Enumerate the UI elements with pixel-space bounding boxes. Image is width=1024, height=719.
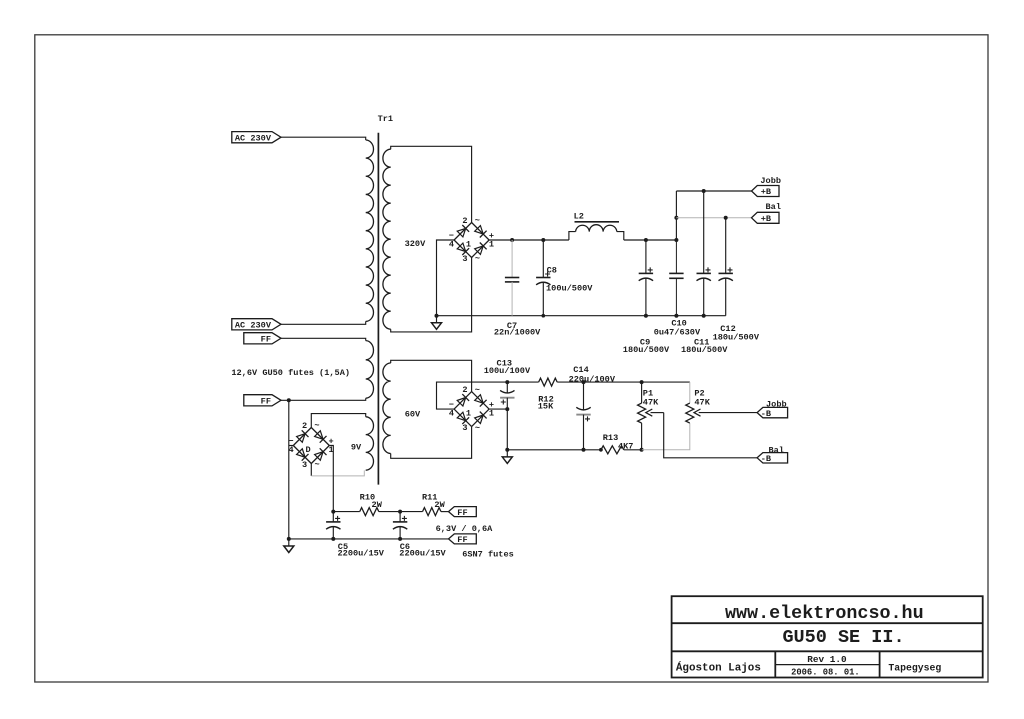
svg-text:180u/500V: 180u/500V <box>623 345 670 355</box>
svg-text:9V: 9V <box>351 443 362 453</box>
svg-text:4: 4 <box>449 409 454 419</box>
potentiometer P2 <box>686 403 757 423</box>
node FF (6SN7 heater -) <box>449 534 477 545</box>
label C8 <box>547 266 557 276</box>
wire Bal +B line <box>676 217 751 219</box>
svg-text:22n/1000V: 22n/1000V <box>494 328 541 338</box>
wire bridge D1 plus to L2 <box>489 239 569 241</box>
wire P1 wiper to Bal -B <box>664 413 757 458</box>
Tr1 12.6V GU50 heater winding <box>366 341 374 399</box>
inductor L2 <box>569 222 624 240</box>
junction C9 bottom <box>644 314 648 318</box>
junction C12 top <box>724 216 728 220</box>
transformer Tr1 core <box>377 133 379 485</box>
transformer Tr1 label <box>378 114 393 124</box>
wire 9V top to bridge D <box>311 414 365 428</box>
junction C6 bottom <box>398 537 402 541</box>
label 9V <box>351 443 362 453</box>
svg-text:FF: FF <box>457 508 467 518</box>
capacitor C7 <box>505 240 519 316</box>
junction riser at Bal line <box>674 216 678 220</box>
resistor R13 <box>601 446 642 454</box>
svg-text:3: 3 <box>462 254 467 264</box>
svg-text:4: 4 <box>449 240 454 250</box>
value C5 2200u/15V <box>338 549 385 559</box>
junction C9 top <box>644 238 648 242</box>
value R10 2W <box>372 500 383 510</box>
bridge rectifier D2 (bias) <box>449 385 494 433</box>
svg-text:~: ~ <box>314 421 319 431</box>
svg-text:Jobb: Jobb <box>760 176 781 186</box>
Tr1 320V secondary winding <box>383 149 391 329</box>
ground (heater) <box>284 537 294 553</box>
value C9 180u/500V <box>623 345 670 355</box>
svg-text:C8: C8 <box>547 266 557 276</box>
node Jobb -B <box>757 400 788 419</box>
junction C13 top <box>505 380 509 384</box>
resistor R12 <box>507 378 583 386</box>
junction C11 top <box>702 189 706 193</box>
wire 9V bottom return <box>311 463 364 476</box>
capacitor C10 <box>669 240 683 316</box>
wire bridge D1 minus to ground <box>437 240 455 316</box>
title date 2006. 08. 01. <box>791 668 860 678</box>
wire 320V top to bridge D1 ac <box>391 146 472 222</box>
label C14 <box>573 365 588 375</box>
svg-text:2W: 2W <box>372 500 383 510</box>
label C5 <box>338 542 348 552</box>
label 320V <box>405 239 426 249</box>
value R13 4K7 <box>618 441 633 451</box>
wire L2 to B+ node <box>624 239 677 241</box>
svg-text:100u/100V: 100u/100V <box>484 366 531 376</box>
wire 60V bottom to bias bridge <box>391 427 472 459</box>
capacitor C11 <box>697 191 711 316</box>
svg-text:~: ~ <box>475 254 480 264</box>
svg-text:47K: 47K <box>694 397 710 407</box>
value P1 47K <box>643 397 659 407</box>
svg-text:6SN7 futes: 6SN7 futes <box>462 550 514 560</box>
label C9 <box>640 338 650 348</box>
ground (bias) <box>502 448 512 464</box>
svg-text:2200u/15V: 2200u/15V <box>338 549 385 559</box>
node Bal -B <box>757 445 788 464</box>
value P2 47K <box>694 397 710 407</box>
svg-text:47K: 47K <box>643 397 659 407</box>
label 6SN7 futes <box>462 550 514 560</box>
value C14 220u/100V <box>569 374 616 384</box>
junction bias plus node <box>505 407 509 411</box>
svg-text:1: 1 <box>489 240 494 250</box>
title block box <box>672 596 983 677</box>
junction R13 left <box>599 448 603 452</box>
svg-text:2: 2 <box>302 421 307 431</box>
value C11 180u/500V <box>681 345 728 355</box>
junction C5 top <box>331 510 335 514</box>
label C7 <box>507 321 517 331</box>
svg-text:12,6V GU50 futes (1,5A): 12,6V GU50 futes (1,5A) <box>231 368 350 378</box>
wire bias bridge minus to C13 node <box>437 382 508 409</box>
node FF (GU50 heater top) <box>244 333 281 345</box>
value R11 2W <box>434 500 445 510</box>
node Bal +B <box>752 202 781 224</box>
svg-text:3: 3 <box>462 423 467 433</box>
junction C5 bottom <box>331 537 335 541</box>
svg-text:FF: FF <box>457 535 467 545</box>
svg-text:Bal: Bal <box>766 202 781 212</box>
Tr1 primary winding (AC 230V) <box>366 140 374 321</box>
value C12 180u/500V <box>713 333 760 343</box>
svg-text:+B: +B <box>761 187 771 197</box>
svg-text:2006. 08. 01.: 2006. 08. 01. <box>791 668 860 678</box>
capacitor C9 <box>639 240 653 316</box>
potentiometer P1 <box>638 382 664 450</box>
label C6 <box>400 542 410 552</box>
svg-text:6,3V / 0,6A: 6,3V / 0,6A <box>436 524 494 534</box>
svg-text:Tapegyseg: Tapegyseg <box>888 663 941 674</box>
capacitor C14 <box>576 382 590 450</box>
svg-text:2W: 2W <box>434 500 445 510</box>
svg-text:Tr1: Tr1 <box>378 114 393 124</box>
svg-text:~: ~ <box>315 460 320 470</box>
svg-text:60V: 60V <box>405 410 421 420</box>
junction B+ rail corner <box>674 238 678 242</box>
svg-text:~: ~ <box>475 216 480 226</box>
value C6 2200u/15V <box>399 549 446 559</box>
wire Jobb +B line <box>676 190 751 192</box>
junction C6 top <box>398 510 402 514</box>
svg-text:~: ~ <box>475 423 480 433</box>
svg-text:R13: R13 <box>603 433 618 443</box>
junction P1 top <box>640 380 644 384</box>
wire primary bottom to AC230V-bottom <box>281 321 366 324</box>
node FF (GU50 heater bottom) <box>244 395 281 407</box>
svg-text:Ágoston Lajos: Ágoston Lajos <box>676 660 761 674</box>
label P2 <box>694 389 704 399</box>
wire bias ground rail <box>507 449 601 451</box>
capacitor C5 <box>326 512 340 539</box>
svg-text:L2: L2 <box>574 212 584 222</box>
label P1 <box>643 389 653 399</box>
label 12,6V GU50 futes <box>231 368 350 378</box>
svg-text:2: 2 <box>462 216 467 226</box>
svg-text:+B: +B <box>761 214 771 224</box>
wire FF node down to heater ground <box>288 400 290 539</box>
svg-text:0u47/630V: 0u47/630V <box>654 327 701 337</box>
svg-text:180u/500V: 180u/500V <box>713 333 760 343</box>
title www.elektroncso.hu <box>725 603 924 624</box>
svg-text:~: ~ <box>475 385 480 395</box>
junction FF bottom node <box>287 398 291 402</box>
title GU50 SE II. <box>782 627 904 648</box>
resistor R10 <box>333 508 400 516</box>
wire P2 top lead <box>689 382 691 403</box>
wire bias top rail to P1 <box>584 381 642 383</box>
wire bias top rail to P2 <box>642 381 690 383</box>
svg-text:1: 1 <box>466 409 471 419</box>
svg-text:15K: 15K <box>538 402 554 412</box>
node AC 230V (top input) <box>232 132 281 144</box>
bridge rectifier D1 (HV) <box>449 216 494 264</box>
capacitor C13 <box>500 382 514 409</box>
ground (HV rail) <box>432 314 442 330</box>
title author Agoston Lajos <box>676 660 761 674</box>
wire bridge D minus stub <box>289 445 294 447</box>
capacitor C12 <box>719 218 733 316</box>
wire ground rail to P2 bottom <box>642 423 690 450</box>
svg-text:3: 3 <box>302 460 307 470</box>
wire bridge D plus to C5 <box>329 446 333 512</box>
wire heater ground <box>289 538 449 540</box>
svg-text:4K7: 4K7 <box>618 441 633 451</box>
svg-text:Rev 1.0: Rev 1.0 <box>807 654 847 665</box>
svg-text:4: 4 <box>289 445 294 455</box>
label C12 <box>720 324 735 334</box>
wire bias plus down <box>506 409 508 450</box>
svg-text:2200u/15V: 2200u/15V <box>399 549 446 559</box>
svg-text:-B: -B <box>761 454 771 464</box>
node AC 230V (bottom input) <box>232 319 281 331</box>
value C10 0u47/630V <box>654 327 701 337</box>
svg-text:-B: -B <box>761 409 771 419</box>
bridge rectifier D (9V) <box>288 421 333 470</box>
wire AC230V-top to primary <box>281 137 366 140</box>
value C7 22n/1000V <box>494 328 541 338</box>
svg-text:www.elektroncso.hu: www.elektroncso.hu <box>725 603 924 624</box>
capacitor C8 <box>536 240 550 316</box>
junction C11 bottom <box>702 314 706 318</box>
svg-text:FF: FF <box>261 397 271 407</box>
label R11 <box>422 492 437 502</box>
label C10 <box>671 319 686 329</box>
label R12 <box>538 395 553 405</box>
capacitor C6 <box>393 512 407 539</box>
svg-text:AC 230V: AC 230V <box>235 133 272 143</box>
label R10 <box>360 492 375 502</box>
label R13 <box>603 433 618 443</box>
svg-text:220u/100V: 220u/100V <box>569 374 616 384</box>
value C8 100u/500V <box>546 284 593 294</box>
junction C8 bottom <box>542 314 546 318</box>
junction P1 bottom <box>640 448 644 452</box>
wire HV ground rail <box>437 315 726 317</box>
wire 320V bottom to bridge D1 ac <box>391 258 472 332</box>
node Jobb +B <box>752 176 782 197</box>
wire FF-top to 12.6V winding <box>281 338 366 340</box>
junction C10 bottom <box>674 314 678 318</box>
svg-text:D: D <box>306 445 311 455</box>
title Tapegyseg <box>888 663 941 674</box>
svg-text:1: 1 <box>466 239 471 249</box>
label C13 <box>497 358 512 368</box>
value C13 100u/100V <box>484 366 531 376</box>
value R12 15K <box>538 402 554 412</box>
label L2 <box>574 212 584 222</box>
svg-text:GU50 SE II.: GU50 SE II. <box>782 627 904 648</box>
junction C14 bottom <box>582 448 586 452</box>
label 60V <box>405 410 421 420</box>
Tr1 60V secondary winding <box>383 363 391 454</box>
wire B+ riser <box>675 191 677 240</box>
wire 12.6V winding bottom to FF <box>281 398 366 400</box>
svg-text:100u/500V: 100u/500V <box>546 284 593 294</box>
junction C14 top <box>582 380 586 384</box>
wire bias bridge plus to ground <box>489 408 507 410</box>
svg-text:AC 230V: AC 230V <box>235 321 272 331</box>
junction C7 top <box>510 238 514 242</box>
label C11 <box>694 338 709 348</box>
junction C8 top <box>541 238 545 242</box>
node FF (6SN7 heater +) <box>449 507 477 518</box>
label 6,3V / 0,6A <box>436 524 494 534</box>
Tr1 9V winding <box>366 417 374 470</box>
wire 60V top to bias bridge <box>391 360 472 391</box>
svg-text:2: 2 <box>462 385 467 395</box>
svg-text:320V: 320V <box>405 239 426 249</box>
title Rev 1.0 <box>807 654 847 665</box>
svg-text:FF: FF <box>261 335 271 345</box>
resistor R11 <box>400 508 448 516</box>
svg-text:180u/500V: 180u/500V <box>681 345 728 355</box>
svg-text:1: 1 <box>489 409 494 419</box>
